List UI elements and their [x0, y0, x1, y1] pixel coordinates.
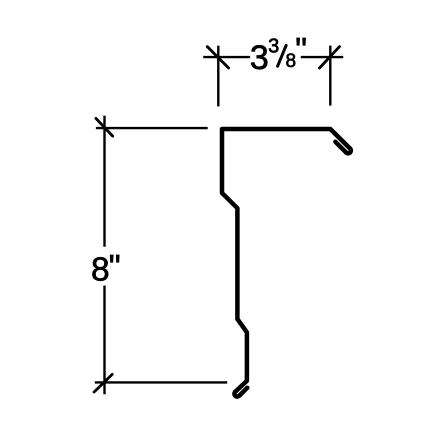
left dimension line lower segment	[103, 286, 105, 395]
fraction slash	[278, 45, 287, 66]
trim profile outline	[222, 129, 351, 397]
left dimension top tick	[96, 118, 113, 136]
left dimension line upper segment	[103, 116, 105, 247]
left dimension: top extension line	[96, 127, 208, 129]
svg-text:8: 8	[91, 251, 110, 288]
top dimension left tick	[207, 47, 228, 68]
svg-text:3: 3	[268, 36, 279, 58]
left dimension: bottom extension line	[95, 381, 227, 383]
top dimension line right segment	[301, 56, 343, 58]
svg-text:": "	[295, 31, 307, 68]
top dimension right tick	[320, 47, 340, 68]
top dimension: right extension line	[329, 46, 331, 106]
left dimension bottom tick	[94, 374, 112, 392]
top dimension line left segment	[203, 56, 250, 58]
svg-text:": "	[109, 249, 121, 286]
top dimension: left extension line	[217, 46, 219, 107]
svg-text:3: 3	[250, 39, 269, 77]
